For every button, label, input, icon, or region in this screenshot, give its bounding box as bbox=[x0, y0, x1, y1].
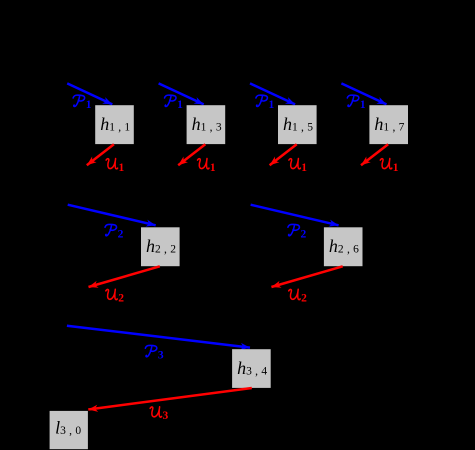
label U1 bbox=[198, 159, 216, 174]
label U1 bbox=[106, 159, 124, 174]
blue arrow P2 into h2,2 bbox=[68, 205, 156, 226]
svg-text:2: 2 bbox=[301, 228, 307, 240]
label U1 bbox=[380, 159, 398, 174]
red arrow U1 out of h1,3 bbox=[178, 144, 205, 165]
red arrow U1 out of h1,5 bbox=[270, 144, 297, 165]
blue arrow P1 into h1,3 bbox=[159, 83, 204, 104]
label P2 bbox=[288, 224, 307, 240]
label U2 bbox=[289, 289, 307, 304]
node h1,7: gray box bbox=[369, 105, 408, 144]
node h1,3: gray box bbox=[187, 105, 226, 144]
node h1,5: gray box bbox=[278, 105, 317, 144]
label P3 bbox=[145, 345, 164, 361]
svg-text:1: 1 bbox=[210, 162, 216, 174]
svg-text:1: 1 bbox=[86, 99, 92, 111]
blue arrow P1 into h1,7 bbox=[341, 83, 386, 104]
svg-text:3: 3 bbox=[163, 410, 169, 422]
svg-text:2: 2 bbox=[118, 293, 124, 305]
label P1 bbox=[347, 95, 366, 111]
svg-text:1: 1 bbox=[301, 162, 307, 174]
label P1 bbox=[256, 95, 275, 111]
label U1 bbox=[289, 159, 307, 174]
label P1 bbox=[73, 95, 92, 111]
label U3 bbox=[150, 407, 168, 422]
node l3,0: gray box bbox=[50, 411, 88, 449]
svg-text:1: 1 bbox=[269, 99, 275, 111]
red arrow U2 out of h2,6 bbox=[271, 266, 342, 287]
red arrow U3 out of h3,4 bbox=[88, 388, 252, 410]
node h2,6: gray box bbox=[324, 227, 363, 266]
svg-text:3: 3 bbox=[158, 349, 164, 361]
node h2,2: gray box bbox=[141, 227, 180, 266]
blue arrow P1 into h1,1 bbox=[67, 83, 112, 104]
svg-text:1: 1 bbox=[119, 162, 125, 174]
label P2 bbox=[105, 224, 124, 240]
label U2 bbox=[106, 289, 124, 304]
red arrow U1 out of h1,1 bbox=[87, 144, 114, 165]
svg-text:1: 1 bbox=[393, 162, 399, 174]
blue arrow P2 into h2,6 bbox=[251, 205, 339, 226]
node h1,1: gray box bbox=[95, 105, 134, 144]
blue arrow P3 into h3,4 bbox=[67, 326, 250, 348]
red arrow U2 out of h2,2 bbox=[89, 266, 160, 287]
svg-text:2: 2 bbox=[301, 293, 307, 305]
blue arrow P1 into h1,5 bbox=[250, 83, 295, 104]
label P1 bbox=[165, 95, 184, 111]
red arrow U1 out of h1,7 bbox=[361, 144, 388, 165]
svg-text:2: 2 bbox=[118, 228, 124, 240]
node h3,4: gray box bbox=[232, 349, 271, 388]
svg-text:1: 1 bbox=[177, 99, 183, 111]
svg-text:1: 1 bbox=[360, 99, 366, 111]
